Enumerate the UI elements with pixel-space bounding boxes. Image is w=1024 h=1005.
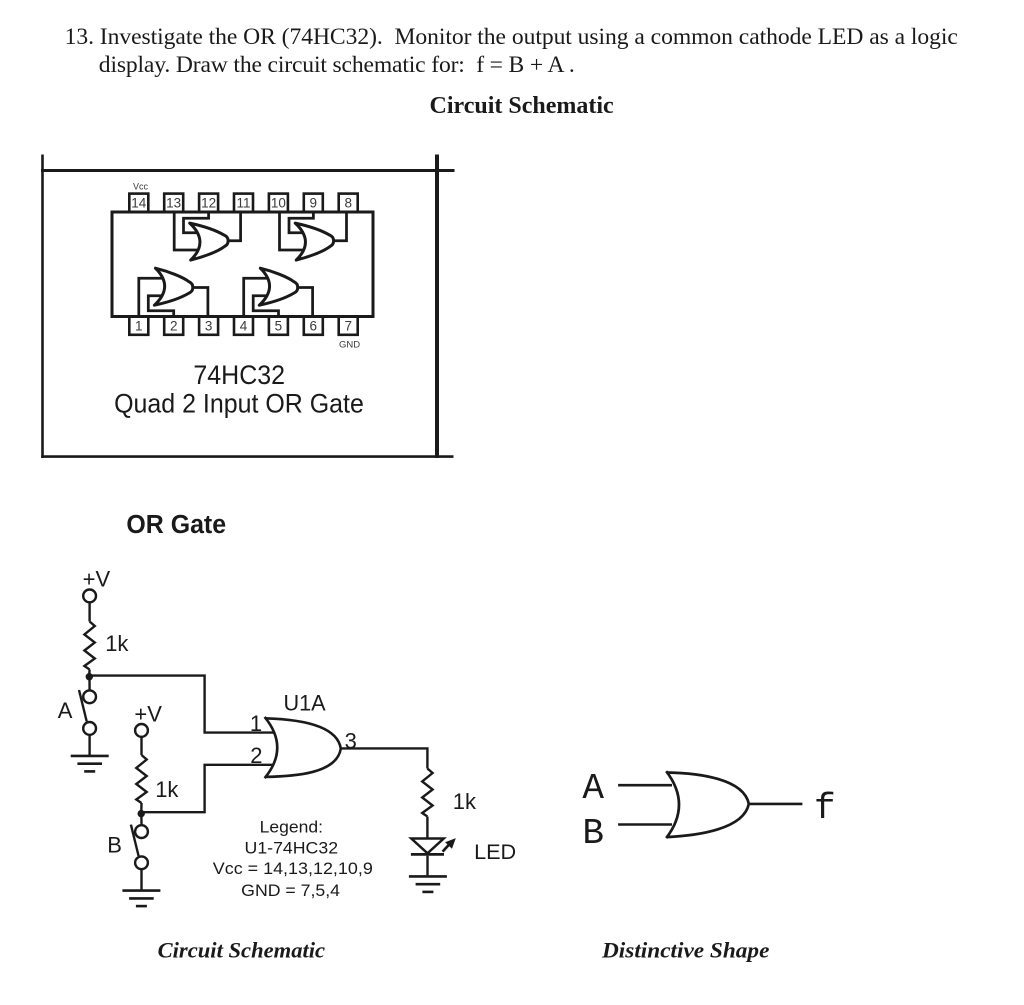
node +V (branch A) terminal circle <box>83 590 96 603</box>
switch A lever <box>79 690 87 721</box>
frame right border <box>435 155 439 459</box>
gate U?B (pins 4,5 -> 6) <box>259 268 297 305</box>
wire node A to gate pin 1 <box>89 676 276 733</box>
svg-text:14: 14 <box>131 196 147 211</box>
pin 8 box <box>339 194 358 212</box>
svg-text:9: 9 <box>310 196 318 211</box>
node +V (branch B) terminal circle <box>135 724 148 737</box>
svg-text:f: f <box>814 788 836 829</box>
wire R3 to LED anode <box>426 817 428 839</box>
switch B top contact <box>135 825 148 838</box>
resistor R2 1k (branch B) <box>136 755 146 803</box>
svg-text:1k: 1k <box>155 777 179 802</box>
svg-text:U1A: U1A <box>283 691 325 716</box>
wire gate3 output to pin8 <box>334 213 347 241</box>
junction node B (dot) <box>138 810 145 817</box>
wire pin12 hook to gate4 input A <box>184 213 209 233</box>
pin 13 box <box>164 194 183 212</box>
svg-text:Distinctive Shape: Distinctive Shape <box>601 938 769 963</box>
junction node A (dot) <box>86 673 93 680</box>
wire input B (distinctive shape) <box>618 823 672 826</box>
pin 4 box <box>234 316 253 334</box>
op-amp style OR gate U1A <box>265 717 341 778</box>
pin 3 box <box>199 316 218 334</box>
svg-text:7: 7 <box>344 319 352 334</box>
svg-text:4: 4 <box>240 319 248 334</box>
pin 12 box <box>199 194 218 212</box>
svg-text:1: 1 <box>135 319 143 334</box>
svg-text:B: B <box>107 832 122 857</box>
wire node A to switch A <box>88 677 90 691</box>
IC U? 74HC32 body <box>112 212 373 317</box>
resistor R1 1k (branch A) <box>84 622 94 670</box>
wire gate1 output to pin3 <box>193 288 208 316</box>
svg-text:5: 5 <box>275 319 283 334</box>
wire +V to R1 <box>88 602 90 621</box>
svg-text:Vcc = 14,13,12,10,9: Vcc = 14,13,12,10,9 <box>213 859 373 878</box>
svg-text:A: A <box>58 698 73 723</box>
switch A top contact <box>83 690 96 703</box>
wire pin10 to gate3 input B <box>280 213 306 250</box>
wire pin13 to gate4 input B <box>174 213 199 250</box>
wire R1 to node A junction <box>88 670 91 675</box>
svg-text:LED: LED <box>474 840 516 864</box>
svg-text:B: B <box>582 813 604 854</box>
LED D1 triangle <box>411 839 443 854</box>
svg-text:OR Gate: OR Gate <box>126 511 226 539</box>
svg-text:Quad 2 Input OR Gate: Quad 2 Input OR Gate <box>114 389 364 419</box>
problem statement line 1 <box>65 24 958 51</box>
gate U?C (pins 9,10 -> 8) <box>295 223 333 260</box>
svg-text:Vcc: Vcc <box>133 182 149 192</box>
svg-text:2: 2 <box>250 743 262 768</box>
svg-text:GND = 7,5,4: GND = 7,5,4 <box>241 881 340 900</box>
svg-text:12: 12 <box>201 196 216 211</box>
svg-text:2: 2 <box>170 319 178 334</box>
svg-text:+V: +V <box>83 567 111 592</box>
svg-text:1k: 1k <box>105 631 129 656</box>
svg-text:Legend:: Legend: <box>260 817 323 836</box>
svg-text:8: 8 <box>344 196 352 211</box>
wire gate2 output to pin6 <box>298 288 313 316</box>
gate U?A (pins 1,2 -> 3) <box>154 268 192 305</box>
svg-text:13: 13 <box>166 196 181 211</box>
wire pin1 to gate1 input A <box>139 278 165 315</box>
pin 6 box <box>304 316 323 334</box>
distinctive shape OR gate <box>666 771 749 838</box>
svg-text:10: 10 <box>271 196 286 211</box>
switch B lever <box>131 825 139 856</box>
wire gate4 output to pin11 <box>228 213 241 241</box>
svg-text:U1-74HC32: U1-74HC32 <box>245 839 339 858</box>
svg-text:11: 11 <box>236 196 250 211</box>
wire pin4 to gate2 input A <box>244 278 270 315</box>
resistor R3 1k (output) <box>422 769 432 817</box>
pin 14 box <box>129 194 148 212</box>
wire LED cathode to ground <box>426 856 428 876</box>
frame bottom border <box>41 455 453 458</box>
svg-text:Circuit Schematic: Circuit Schematic <box>158 938 326 963</box>
frame top border <box>41 169 455 172</box>
switch B bottom contact <box>135 856 148 869</box>
wire pin5 hook to gate2 input B <box>253 296 278 316</box>
LED arrow shaft <box>443 843 451 851</box>
wire switch B to ground <box>140 869 142 889</box>
pin 7 box <box>339 316 358 334</box>
svg-text:6: 6 <box>310 319 318 334</box>
wire pin9 hook to gate3 input A <box>289 213 313 233</box>
switch A bottom contact <box>83 722 96 735</box>
wire U1A pin 3 output to R3 <box>341 748 428 768</box>
wire +V to R2 <box>140 737 142 755</box>
pin 10 box <box>269 194 288 212</box>
ground (branch A) <box>71 756 109 772</box>
ground (branch B) <box>122 891 160 907</box>
svg-text:74HC32: 74HC32 <box>193 360 285 390</box>
heading Circuit Schematic <box>430 93 614 120</box>
problem statement line 2 <box>99 52 575 79</box>
wire output f (distinctive shape) <box>749 803 803 806</box>
wire input A (distinctive shape) <box>618 784 672 787</box>
wire pin2 hook to gate1 input B <box>148 296 173 316</box>
svg-text:3: 3 <box>345 729 357 754</box>
wire R2 to node B junction <box>140 803 143 811</box>
frame left border <box>41 155 44 459</box>
svg-text:A: A <box>582 768 604 809</box>
svg-text:1: 1 <box>250 711 262 736</box>
pin 5 box <box>269 316 288 334</box>
svg-text:GND: GND <box>339 339 360 350</box>
wire node B to gate pin 2 <box>141 765 276 812</box>
svg-text:+V: +V <box>134 702 162 727</box>
svg-text:1k: 1k <box>453 789 477 814</box>
svg-text:3: 3 <box>205 319 213 334</box>
LED cathode bar <box>411 853 444 856</box>
wire switch A to ground <box>88 735 90 755</box>
pin 1 box <box>129 316 148 334</box>
pin 9 box <box>304 194 323 212</box>
LED arrow head <box>446 839 455 848</box>
ground (LED) <box>409 876 447 892</box>
pin 11 box <box>234 194 253 212</box>
pin 2 box <box>164 316 183 334</box>
gate U?D (pins 12,13 -> 11) <box>190 223 228 260</box>
wire node B to switch B <box>140 814 143 825</box>
